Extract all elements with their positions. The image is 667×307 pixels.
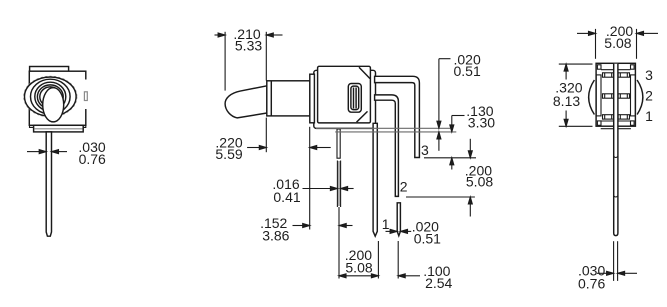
toggle lever (front) <box>43 88 64 122</box>
slot bar <box>353 88 355 109</box>
ring 3a <box>37 85 63 109</box>
bushing ring inner <box>31 79 71 114</box>
dim .210 arrows <box>215 34 220 36</box>
corner tab TL <box>597 65 601 69</box>
svg-text:3: 3 <box>421 142 429 158</box>
svg-text:8.13: 8.13 <box>553 93 580 109</box>
body <box>29 71 86 125</box>
bushing ring scallop halo <box>24 76 77 117</box>
svg-text:2: 2 <box>400 179 408 195</box>
dim .100 bottom <box>397 241 399 279</box>
terminal bar 1 <box>603 115 630 119</box>
corner tab BR <box>631 121 635 125</box>
pin 3 tip mark on rear pin <box>614 156 618 157</box>
svg-text:0.76: 0.76 <box>79 151 106 167</box>
dim .030 left arrows <box>27 151 39 153</box>
pin 3 <box>375 76 420 157</box>
rear pin <box>614 64 618 236</box>
svg-text:5.59: 5.59 <box>215 146 242 162</box>
corner tab BL <box>597 121 601 125</box>
dim .020 top-right leader <box>439 58 451 60</box>
pin 2 tip mark on rear pin <box>614 196 618 197</box>
dim .200 bottom <box>377 241 379 279</box>
svg-text:5.08: 5.08 <box>466 174 493 190</box>
ring 2 <box>35 82 66 111</box>
pin 2 upper <box>375 95 399 196</box>
dim .016 ext lines <box>336 161 338 208</box>
svg-text:1: 1 <box>645 108 653 124</box>
body (bottom view) <box>596 63 635 126</box>
bulge right <box>637 80 643 115</box>
bushing cylinder <box>267 81 310 116</box>
pin3 tip line C <box>424 157 476 159</box>
front pin <box>46 132 51 236</box>
svg-text:5.08: 5.08 <box>604 35 631 51</box>
pin2 tip line D <box>406 196 475 198</box>
body right edge gap eraser <box>84 80 88 110</box>
corner tab TR <box>631 65 635 69</box>
dim .020 bottom arrows <box>386 230 391 232</box>
bushing end cap line <box>270 81 272 116</box>
svg-text:2.54: 2.54 <box>425 275 452 291</box>
inner top line <box>601 69 630 71</box>
base seam line <box>35 128 83 130</box>
body (side) <box>318 66 371 123</box>
base corner step right <box>81 125 85 127</box>
terminal bar 2 <box>603 94 630 98</box>
svg-text:5.33: 5.33 <box>235 38 262 54</box>
dim .220 leader+arrows <box>247 147 259 149</box>
dim .210 ext lines <box>224 32 226 91</box>
base corner step left <box>30 125 34 127</box>
ext line below support pin right (.152/.200) <box>338 207 340 279</box>
chamfer bottom-right <box>357 111 368 122</box>
svg-text:0.41: 0.41 <box>273 189 300 205</box>
dim .320 ext <box>559 63 593 65</box>
base plate <box>34 125 84 132</box>
svg-text:1: 1 <box>382 216 390 232</box>
dim .130 leader <box>452 115 465 117</box>
svg-text:3.86: 3.86 <box>262 228 289 244</box>
svg-text:3.30: 3.30 <box>468 114 495 130</box>
bulge left <box>589 80 595 115</box>
support pin <box>337 129 340 158</box>
svg-text:0.76: 0.76 <box>578 276 605 292</box>
dim .030 right-view <box>613 241 615 281</box>
bracket line A <box>316 127 450 129</box>
ring 3b <box>40 87 61 107</box>
svg-text:5.08: 5.08 <box>345 260 372 276</box>
dim .152 arrows <box>293 225 303 227</box>
chamfer top-right <box>359 67 370 78</box>
ext line left of flange (.220/.152) <box>309 127 311 230</box>
svg-text:3: 3 <box>645 67 653 83</box>
bracket lip lines <box>601 128 614 130</box>
dim .200 right-view ext <box>595 29 597 59</box>
top plate <box>30 67 69 72</box>
dim .200 right arrows <box>469 139 471 151</box>
toggle lever (side) <box>225 86 267 118</box>
slot outer <box>348 84 361 113</box>
inner bottom line <box>601 120 630 122</box>
terminal bar 3 <box>603 73 630 77</box>
side slot right <box>631 75 636 116</box>
bushing ring outer <box>25 77 77 116</box>
seating line B <box>335 131 456 133</box>
side slot left <box>596 75 601 116</box>
support pin hidden ghost <box>338 161 340 206</box>
pin 1 <box>373 123 377 236</box>
slot inner <box>351 86 359 110</box>
svg-text:0.51: 0.51 <box>454 63 481 79</box>
pin 2 lower <box>397 203 400 236</box>
dim .016 arrows <box>303 188 331 190</box>
right side tab <box>84 92 87 101</box>
svg-text:2: 2 <box>645 87 653 103</box>
flange <box>310 74 315 123</box>
washer frame <box>314 70 376 128</box>
svg-text:0.51: 0.51 <box>414 231 441 247</box>
